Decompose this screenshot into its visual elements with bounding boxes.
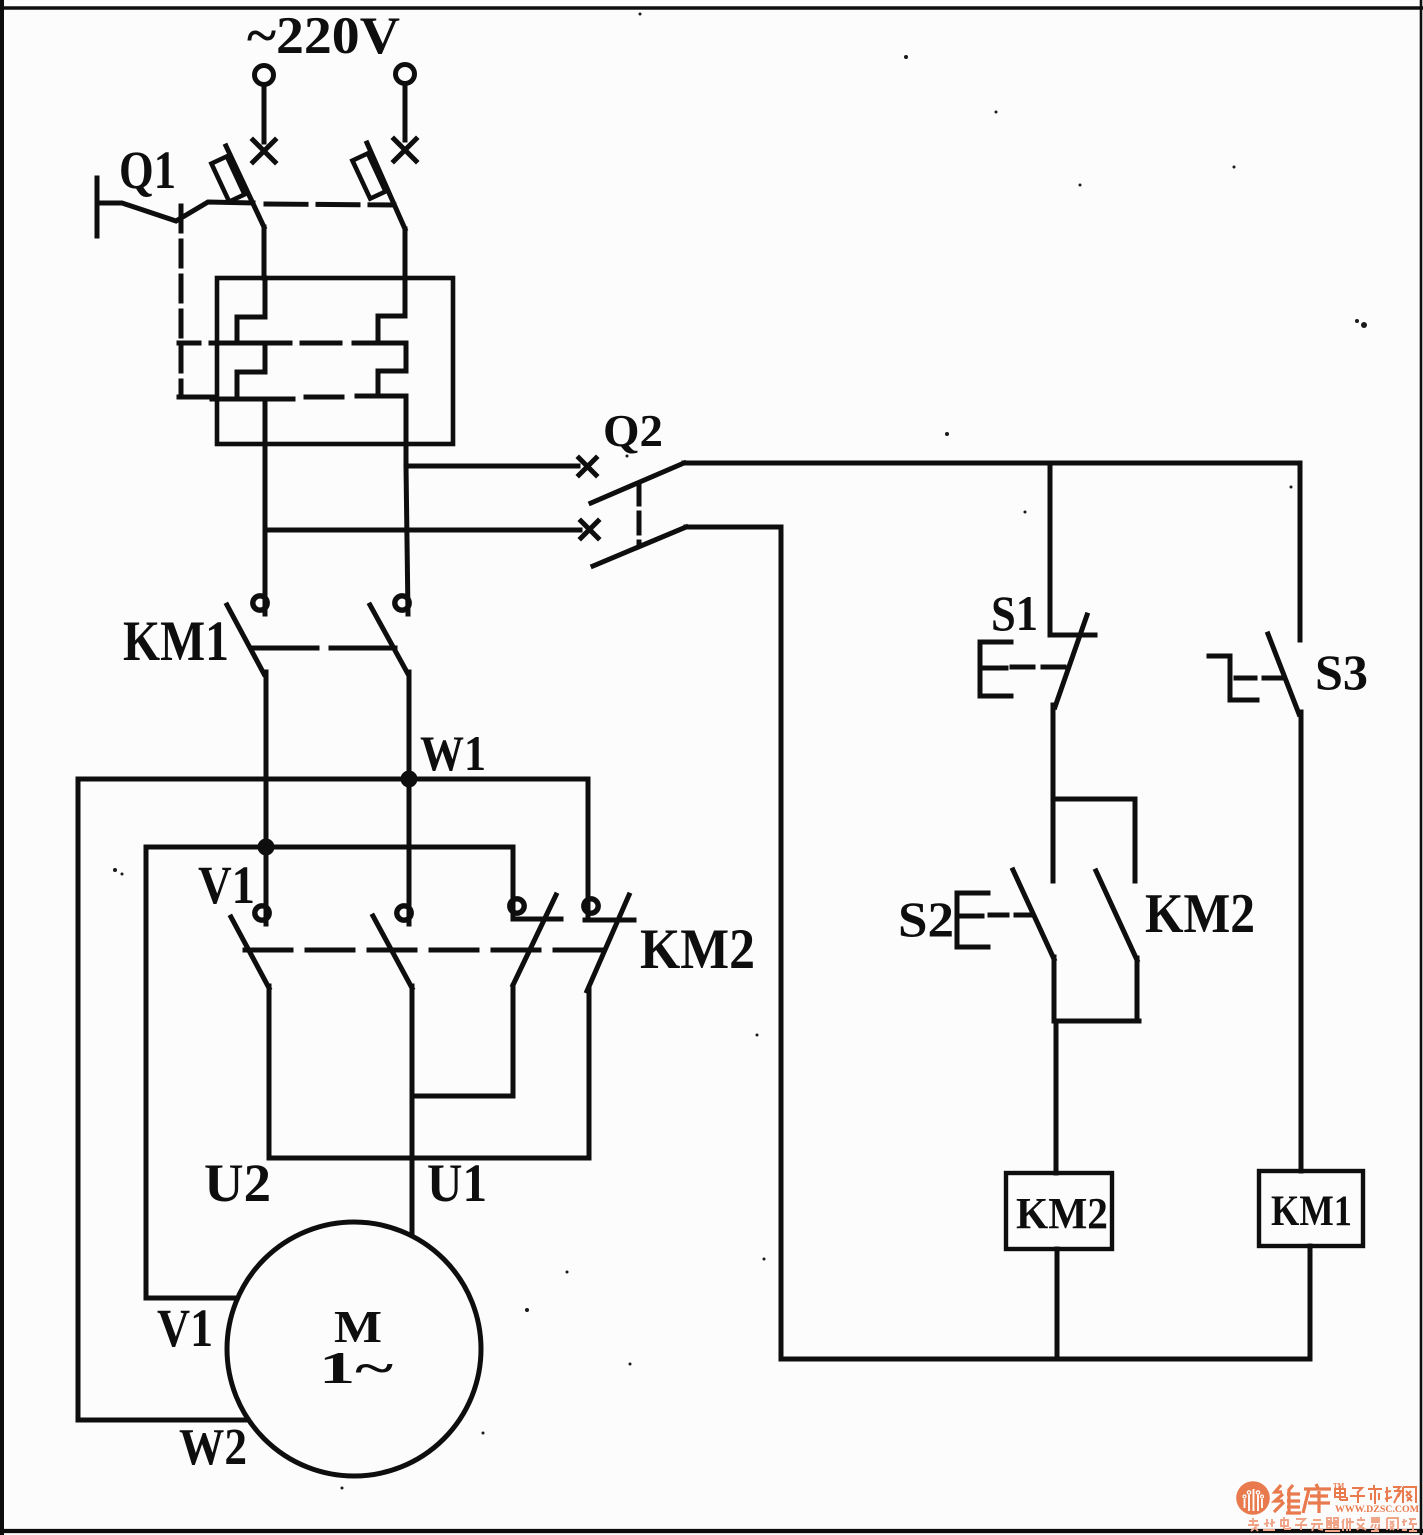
breaker Q1 linkage dashed vertical — [179, 206, 184, 397]
wire V1 right down to KM2 pole3 — [511, 847, 516, 919]
svg-text:KM2: KM2 — [1145, 883, 1255, 945]
overload relay FR box — [217, 278, 453, 444]
svg-text:KM1: KM1 — [1271, 1188, 1352, 1235]
svg-text:~220V: ~220V — [247, 7, 400, 65]
overload heater 1 — [237, 278, 265, 614]
wire branch to KM2 aux — [1053, 799, 1135, 881]
svg-text:Q2: Q2 — [603, 405, 663, 456]
wire KM2 pole4 down — [587, 989, 592, 1158]
svg-text:W1: W1 — [420, 725, 486, 781]
svg-text:WWW.DZSC.COM: WWW.DZSC.COM — [1335, 1505, 1419, 1515]
breaker Q1 pole1 blade — [226, 146, 264, 227]
terminal L2 circle — [396, 65, 415, 84]
pushbutton S2 actuator E — [957, 893, 988, 947]
wire KM2 pole2 down to motor U1 — [410, 986, 415, 1235]
svg-text:V1: V1 — [157, 1298, 213, 1358]
watermark char wei — [1274, 1485, 1301, 1513]
contactor KM2 pole4 terminal — [584, 899, 598, 913]
wire overload to Q2 pole1 — [406, 464, 578, 469]
contactor KM2 pole2 blade — [373, 916, 412, 988]
overload trip dashes bottom — [306, 395, 342, 400]
overload heater 1 middle bar — [211, 341, 290, 346]
wire KM2 coil down — [1055, 1249, 1060, 1359]
node V1 — [258, 839, 275, 856]
wire join S2 and KM2 aux — [1054, 1019, 1139, 1024]
contactor KM1 pole2 terminal — [395, 596, 409, 610]
contactor KM2 pole3 terminal — [510, 899, 524, 913]
motor M circle — [227, 1222, 481, 1476]
svg-text:KM2: KM2 — [1016, 1189, 1108, 1238]
wire Q2 pole2 right — [686, 527, 781, 1359]
coil KM1 box — [1259, 1171, 1363, 1246]
contactor KM1 pole1 blade — [227, 605, 264, 674]
contactor KM1 pole2 blade — [370, 605, 408, 674]
pushbutton S1 dashed link — [1012, 665, 1066, 670]
wire top to S1 — [1048, 463, 1053, 634]
wire U bus — [269, 1156, 589, 1161]
switch S3 dashed link — [1236, 676, 1285, 681]
breaker Q1 linkage corner to overload bottom bar — [179, 395, 214, 400]
svg-text:KM2: KM2 — [640, 918, 755, 981]
pushbutton S2 dashed link — [990, 913, 1030, 918]
svg-text:1~: 1~ — [319, 1342, 393, 1393]
breaker Q1 linkage dashed horizontal — [266, 204, 394, 205]
border frame top — [0, 6, 1423, 10]
svg-text:S3: S3 — [1315, 644, 1368, 700]
switch Q2 pole1 blade — [591, 463, 684, 503]
wire W1 left down to W2 — [78, 779, 248, 1420]
wire pole1 to overload box — [262, 227, 267, 278]
wire down to KM2 coil — [1054, 1021, 1059, 1173]
switch S1 blade — [1055, 615, 1087, 707]
wire overload to Q2 pole2 — [266, 528, 580, 533]
coil KM2 box — [1006, 1173, 1112, 1249]
wire KM1 pole1 down — [264, 672, 269, 924]
contactor KM1 linkage dashed — [253, 646, 396, 651]
svg-text:S1: S1 — [991, 585, 1038, 641]
svg-text:U1: U1 — [427, 1153, 487, 1213]
breaker Q1 handle zigzag — [97, 202, 253, 221]
wire overload pole2 down to KM1 — [406, 466, 408, 614]
svg-text:S2: S2 — [898, 891, 954, 947]
svg-text:W2: W2 — [179, 1419, 247, 1476]
contactor KM2 pole2 terminal — [397, 906, 411, 920]
breaker Q1 pole2 blade — [367, 143, 405, 229]
wire V1 bus — [146, 845, 513, 850]
contactor KM1 pole1 terminal — [253, 596, 267, 610]
wire S3 down to KM1 coil — [1299, 712, 1304, 1171]
wire KM2 aux down — [1135, 958, 1140, 1021]
switch S2 blade — [1013, 870, 1054, 959]
wire KM1 coil down — [1308, 1246, 1313, 1359]
wire top to S3 — [1298, 463, 1303, 640]
border frame bottom — [0, 1529, 1423, 1533]
pushbutton S1 actuator E — [980, 642, 1011, 696]
contactor KM2 pole1 blade — [231, 917, 269, 988]
watermark chars dianzishichangwang — [1335, 1485, 1416, 1504]
x mark L2 — [394, 139, 416, 161]
contactor KM2 linkage dashed — [245, 948, 614, 953]
breaker Q1 handle terminal — [95, 178, 100, 236]
switch S3 actuator bracket — [1209, 656, 1257, 700]
wire pole2 to overload box — [403, 229, 408, 278]
node W1 — [401, 771, 418, 788]
wire S2 down — [1052, 957, 1057, 1021]
watermark slogan row — [1248, 1517, 1417, 1531]
wire KM1 pole2 down — [407, 672, 412, 924]
contact KM2 aux blade — [1096, 871, 1137, 960]
wire S1 down — [1051, 705, 1056, 881]
overload heater 1 bottom bar — [212, 397, 293, 402]
watermark logo circle — [1236, 1481, 1270, 1515]
contactor KM2 pole4 blade NC — [587, 895, 629, 991]
wire KM2 pole3 U-turn to pole2 wire — [413, 1094, 513, 1099]
contactor KM2 pole3 fixed bar — [513, 917, 561, 922]
wire Q2 pole1 to control top — [684, 461, 1300, 466]
wire W1 right down to KM2 pole4 — [586, 779, 591, 920]
switch Q2 pole2 blade — [593, 527, 686, 566]
breaker Q1 linkage dash to overload — [179, 341, 199, 346]
wire W1 bus — [78, 777, 588, 782]
overload trip dashes middle — [302, 341, 340, 346]
x mark Q2 pole1 — [579, 458, 596, 475]
x mark Q2 pole2 — [581, 521, 598, 538]
watermark char ku — [1303, 1484, 1331, 1513]
breaker Q1 pole2 body rect — [352, 153, 385, 198]
wire V1 left down to motor — [146, 847, 237, 1298]
x mark L1 — [253, 140, 275, 162]
contactor KM2 pole4 fixed bar — [585, 918, 634, 923]
wire KM2 pole1 down — [267, 986, 272, 1158]
wire control bottom bus — [781, 1357, 1310, 1362]
overload heater 2 — [378, 278, 406, 466]
border frame left — [0, 0, 4, 1535]
svg-text:KM1: KM1 — [123, 610, 229, 673]
border frame right — [1420, 0, 1423, 1535]
wire from L1 — [262, 85, 267, 142]
contactor KM2 pole1 terminal — [255, 906, 269, 920]
switch S1 fixed bar — [1050, 633, 1095, 638]
wire from L2 — [403, 84, 408, 140]
svg-text:V1: V1 — [198, 855, 255, 915]
switch S3 blade — [1268, 634, 1299, 714]
svg-text:U2: U2 — [204, 1153, 271, 1213]
wire KM2 pole3 down — [511, 986, 516, 1096]
overload heater 2 middle bar — [354, 341, 406, 346]
breaker Q1 pole1 body rect — [211, 156, 244, 201]
overload heater 2 bottom bar — [357, 394, 405, 399]
terminal L1 circle — [255, 66, 274, 85]
svg-text:Q1: Q1 — [119, 140, 176, 200]
switch Q2 linkage dashed — [637, 484, 642, 546]
contactor KM2 pole3 blade NC — [513, 895, 556, 985]
